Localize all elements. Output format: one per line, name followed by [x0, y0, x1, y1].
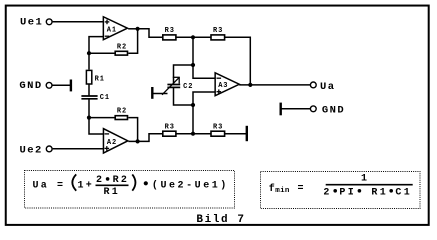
wire R3 to R3 bottom [176, 133, 211, 135]
capacitor C1 [81, 94, 110, 102]
node A3 output [248, 83, 252, 87]
wire D1 to A3 - input [193, 65, 215, 78]
node J2 [191, 132, 195, 136]
wire R1 to C1 [88, 84, 90, 96]
formula box right [261, 172, 421, 209]
node A1 output [136, 27, 140, 31]
svg-text:R1: R1 [95, 75, 105, 83]
wire A3 output [239, 84, 310, 86]
svg-text:GND: GND [322, 104, 345, 116]
wire J1 down to D1 [192, 37, 194, 65]
label Ue1 [20, 17, 43, 29]
node N2 [87, 116, 91, 120]
formula fmin [269, 174, 413, 199]
resistor R3 (top second, feedback) [211, 27, 225, 40]
op-amp A2 [103, 129, 127, 153]
wire C1 to N2 [88, 99, 90, 118]
node N1 [87, 51, 91, 55]
resistor R2 (lower) [115, 108, 127, 120]
svg-text:min: min [275, 187, 290, 195]
op-amp A3 [215, 73, 239, 96]
wire N2 to R2 lower [89, 117, 115, 119]
svg-text:1+: 1+ [78, 181, 95, 192]
wire Ue1 to A1 + input [53, 21, 104, 23]
wire N1 to R1 [88, 53, 90, 69]
resistor R3 (bottom first) [163, 124, 176, 137]
svg-text:C1: C1 [395, 188, 412, 199]
wire Ue2 to A2 + input [53, 148, 104, 150]
wire R2 lower to A2 output node [128, 118, 137, 142]
wire D2 down to J2 [192, 105, 194, 134]
svg-text:=: = [57, 181, 65, 192]
ground bar left [70, 80, 72, 92]
svg-text:A1: A1 [107, 26, 117, 34]
svg-text:R3: R3 [213, 27, 223, 35]
svg-text:(Ue2-Ue1): (Ue2-Ue1) [152, 180, 229, 192]
svg-text:R3: R3 [213, 124, 223, 132]
svg-text:GND: GND [19, 80, 42, 92]
wire GND right [281, 108, 311, 110]
terminal Ue2 [46, 146, 52, 152]
node A2 output [136, 139, 140, 143]
terminal GND left [46, 82, 52, 88]
wire D2 to A3 + input [193, 92, 215, 105]
svg-text:C1: C1 [100, 94, 110, 102]
svg-text:R3: R3 [165, 27, 175, 35]
wire N1 to R2 [89, 52, 115, 54]
svg-text:2: 2 [323, 188, 331, 199]
label Ue2 [20, 144, 43, 156]
ground bar at C2 [152, 87, 167, 99]
svg-text:Ue1: Ue1 [20, 17, 43, 29]
wire A1 output [128, 28, 137, 30]
node D2 [191, 103, 195, 107]
svg-text:PI: PI [339, 188, 356, 199]
label GND left [19, 80, 42, 92]
resistor R3 (bottom second) [211, 124, 225, 137]
svg-text:Ua: Ua [320, 81, 336, 93]
wire R3 feedback to A3 output [225, 37, 251, 85]
svg-text:=: = [298, 184, 306, 195]
svg-text:Bild 7: Bild 7 [196, 214, 245, 226]
resistor R3 (top first) [163, 27, 176, 40]
terminal GND right [310, 106, 316, 112]
op-amp A1 [103, 17, 127, 40]
formula box left [25, 171, 235, 209]
svg-text:R1: R1 [371, 188, 388, 199]
ground bar right [280, 103, 282, 116]
wire R3 to R3 top [176, 36, 211, 38]
wire D1 to C2 top [174, 65, 194, 84]
resistor R2 (upper) [115, 44, 127, 56]
svg-text:Ue2: Ue2 [20, 144, 43, 156]
label GND right [322, 104, 345, 116]
wire A1 output to R3 row [138, 29, 163, 38]
svg-text:1: 1 [361, 174, 369, 185]
wire R2 to A1 output node [128, 29, 137, 53]
svg-text:R2: R2 [117, 108, 127, 116]
node J1 [191, 35, 195, 39]
svg-text:Ua: Ua [33, 181, 50, 192]
wire A2 output to R3 row bottom [138, 134, 163, 142]
wire GND left to bar [53, 84, 71, 86]
ground bar bottom [246, 126, 248, 141]
capacitor C2 (trimmer) [167, 83, 193, 91]
wire C2 bottom to D2 [174, 87, 194, 105]
node D1 [191, 63, 195, 67]
svg-text:R3: R3 [165, 124, 175, 132]
svg-text:R1: R1 [104, 187, 121, 198]
trimmer arrow of C2 [162, 77, 180, 95]
caption Bild 7 [196, 214, 245, 226]
svg-text:C2: C2 [183, 83, 193, 91]
terminal Ua [310, 82, 316, 88]
wire A2 output [128, 140, 137, 142]
svg-text:R2: R2 [117, 44, 127, 52]
terminal Ue1 [46, 19, 52, 25]
resistor R1 [86, 70, 104, 84]
svg-text:A2: A2 [107, 139, 117, 147]
wire N2 to A2 - input [89, 118, 104, 134]
svg-text:A3: A3 [218, 82, 228, 90]
wire R3 bottom to ground bar [225, 133, 247, 135]
wire A1 - input to node N1 [89, 37, 103, 54]
label Ua [320, 81, 336, 93]
formula Ua [33, 174, 229, 198]
